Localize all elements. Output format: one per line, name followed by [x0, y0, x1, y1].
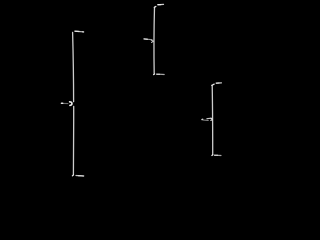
bar B1 bottom tick bright overdraw right	[79, 175, 84, 177]
bar B1 bottom end hook	[72, 174, 73, 177]
bar B3 vertical line	[211, 85, 214, 155]
bar B2 top end hook	[154, 6, 156, 7]
bar B2 bottom end hook	[154, 73, 155, 76]
bar B1 mid arrow shaft	[61, 102, 68, 104]
bar B3 top end hook	[212, 84, 215, 85]
bar B3 mid arrow bright start dot	[201, 118, 204, 120]
bar B1 vertical line (upper segment)	[73, 32, 74, 101]
bar B1 mid arrowhead crescent	[70, 102, 72, 106]
bar B3 bottom tick bright overdraw	[215, 154, 218, 156]
bar B2 vertical line	[153, 7, 156, 74]
bar B3 mid arrow upper shaft stroke	[207, 117, 211, 120]
bar B2 top tick bright overdraw	[158, 4, 161, 6]
bar B1 vertical line (lower segment)	[72, 106, 74, 174]
bar B2 mid arrow shaft	[144, 38, 152, 41]
bar B2 bottom tick bright overdraw	[157, 73, 160, 75]
bar B1 mid arrow shaft bright overdraw	[62, 102, 63, 104]
bar B2 mid arrow shaft bright overdraw	[144, 38, 147, 40]
bar B2 top tick	[158, 3, 164, 5]
bar B1 top tick	[75, 30, 84, 33]
bar B3 bottom end hook	[211, 154, 214, 157]
bar B3 top tick bright overdraw	[216, 82, 219, 84]
bar B3 mid arrowhead chevron	[211, 118, 213, 120]
bar B1 top tick bright dot right	[83, 31, 84, 33]
bar B3 mid arrow lower shaft stroke	[203, 119, 208, 121]
bar B2 bottom tick	[157, 73, 165, 75]
bar B3 bottom tick	[214, 154, 221, 156]
bar B1 top tick bright overdraw left	[75, 30, 79, 32]
bar B3 top tick	[216, 82, 221, 84]
bar B2 mid arrowhead chevron	[151, 40, 153, 42]
bar B1 bottom tick	[76, 175, 84, 178]
